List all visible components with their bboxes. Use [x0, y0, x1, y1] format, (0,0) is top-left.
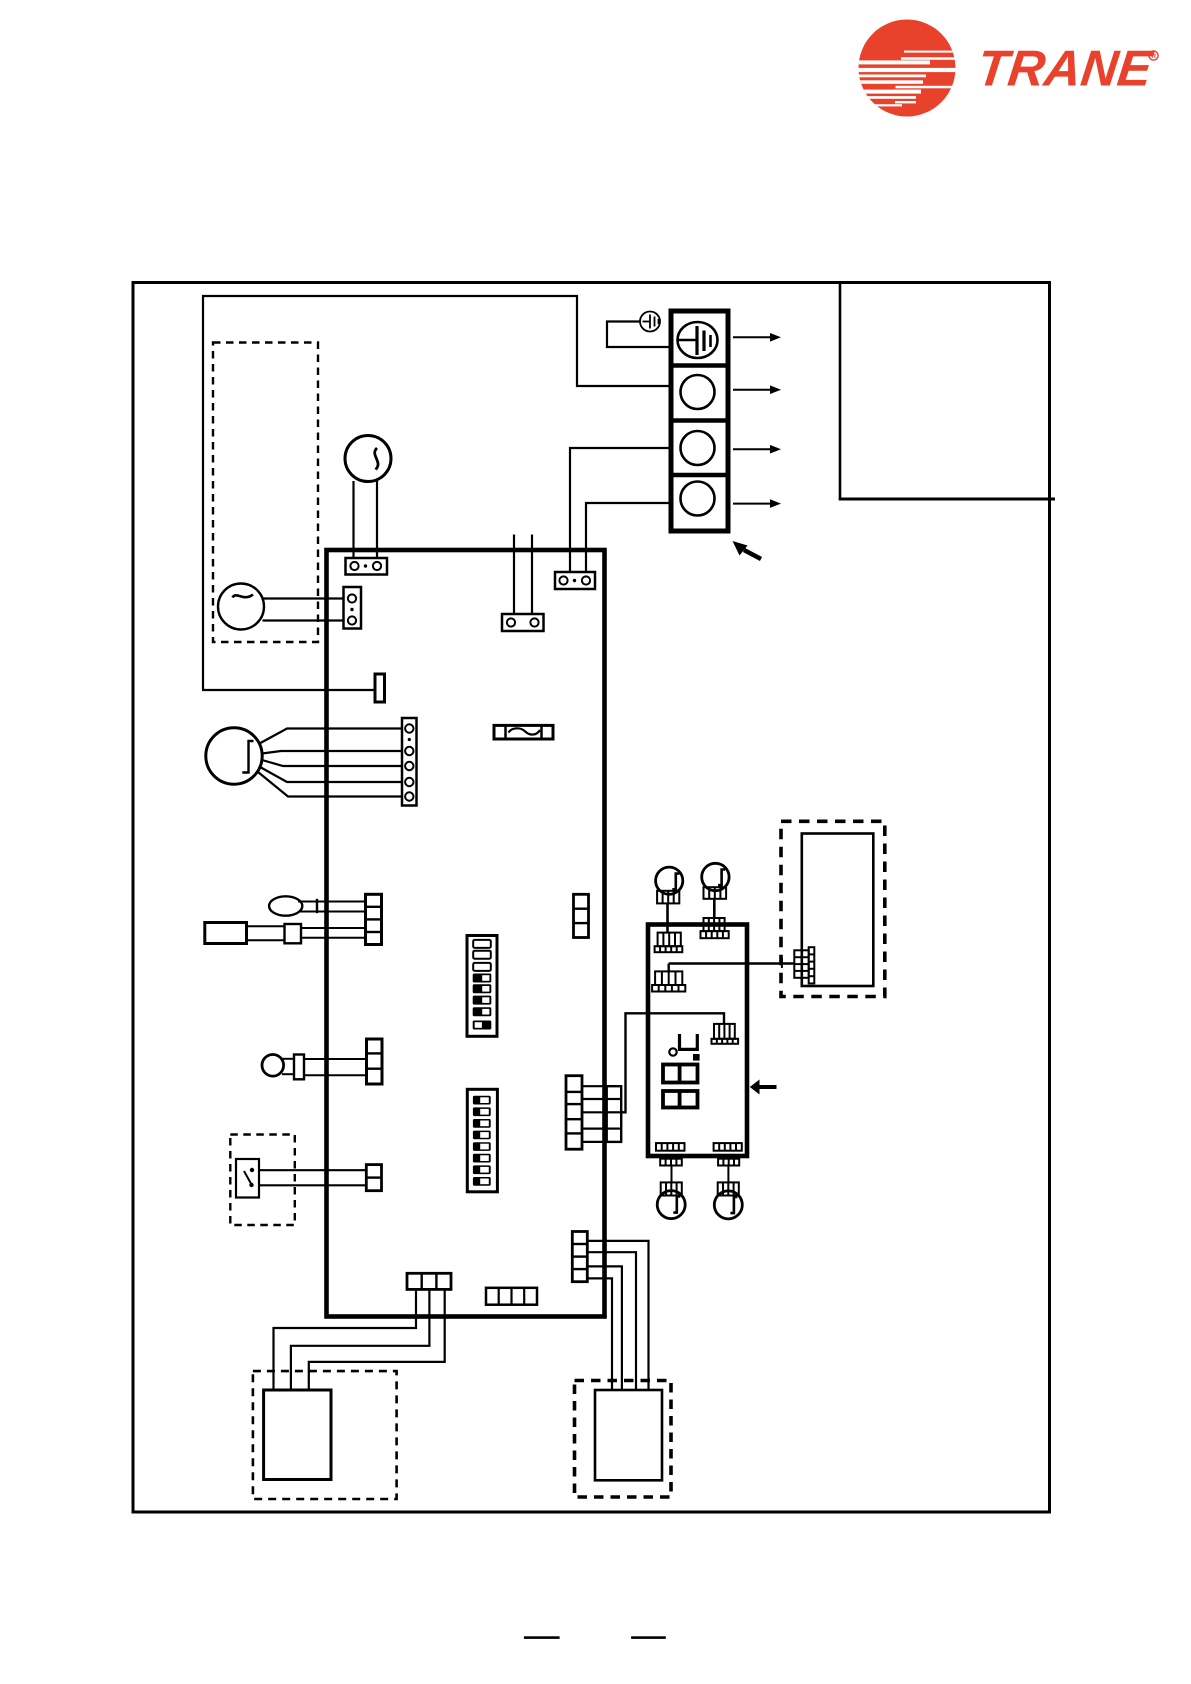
wire display to M3	[671, 1166, 673, 1183]
page footer dash 1	[524, 1636, 560, 1639]
temp sensor TH3 probe	[262, 1055, 367, 1080]
arrow pointing to terminal strip	[733, 541, 762, 559]
wire CN12 pin3 to compressor box	[587, 1266, 622, 1390]
connector CN5	[402, 718, 417, 806]
display comb B	[701, 918, 729, 938]
wire CN10 pin 2	[582, 1098, 607, 1100]
M1 comb connector	[657, 891, 679, 904]
connector CN8	[366, 1165, 381, 1191]
compressor body	[595, 1390, 662, 1480]
wire CN12 pin2 to compressor box	[587, 1252, 636, 1390]
wire switch line 1	[259, 1169, 366, 1171]
wire CN10 pin 4	[582, 1127, 607, 1129]
display comb A	[655, 933, 683, 953]
compressor dashed enclosure	[575, 1381, 672, 1498]
temp sensor TH1 bulb	[269, 896, 365, 915]
display digit 8 (tens)	[663, 1065, 698, 1083]
field wiring box bottom edge	[839, 498, 1055, 501]
page border frame	[133, 283, 1050, 1513]
power supply dashed enclosure	[213, 343, 318, 643]
wire contactor pin 1	[260, 729, 403, 744]
wire CN10 pin 3	[582, 1111, 607, 1113]
wire CN10 pin 1	[582, 1085, 607, 1087]
wire CN11 to display comb	[621, 1013, 724, 1112]
arrow terminal 2	[733, 385, 781, 394]
wire CN12 pin1 to compressor box	[587, 1241, 648, 1390]
connector CN7	[367, 1039, 383, 1084]
contactor body	[264, 1390, 331, 1480]
terminal 2 contact	[681, 375, 715, 409]
wire contactor pin 3	[262, 760, 402, 766]
connector CN4	[344, 587, 362, 629]
terminal 3 contact	[681, 431, 715, 465]
main control board outline	[327, 550, 605, 1317]
fuse F1	[494, 725, 553, 739]
pressure switch S1	[236, 1159, 259, 1198]
wire heater to connector pin 1	[352, 481, 354, 558]
arrow terminal 4	[733, 499, 781, 508]
display decimal point	[693, 1054, 700, 1061]
Trane logo circle	[855, 20, 957, 117]
Trane logo wordmark	[974, 40, 1158, 97]
wire CN13 pin1 to contactor box	[274, 1289, 417, 1390]
DIP switch block SW1	[467, 936, 497, 1037]
arrow terminal 3	[733, 445, 781, 454]
terminal strip TB1	[671, 311, 728, 531]
heater element circle	[345, 436, 391, 482]
DIP switch block SW2	[467, 1089, 497, 1192]
wire CN13 pin2 to contactor box	[291, 1289, 430, 1390]
M3 comb connector	[661, 1182, 682, 1195]
arrow terminal 1	[733, 333, 781, 342]
svg-text:TRANE: TRANE	[974, 40, 1157, 97]
display degree symbol	[669, 1048, 676, 1055]
contactor dashed enclosure	[253, 1371, 397, 1499]
remote controller dashed enclosure	[781, 821, 885, 996]
temp sensor TH2 probe	[205, 923, 366, 944]
connector CN11	[607, 1086, 622, 1142]
remote connector column B	[809, 947, 815, 983]
fan motor M3	[657, 1191, 685, 1219]
connector CN14	[486, 1288, 537, 1305]
wire tick at remote enclosure	[781, 958, 783, 968]
display comb E	[656, 1143, 685, 1165]
terminal 4 contact	[681, 482, 715, 516]
wire contactor pin 4	[260, 767, 402, 782]
M2 comb connector	[704, 887, 727, 899]
wire strip terminal 4 to board connector	[586, 503, 671, 572]
earth symbol (small)	[640, 312, 660, 332]
display comb D	[712, 1024, 739, 1044]
wire CN13 pin3 to contactor box	[309, 1289, 445, 1390]
wire contactor pin 2	[262, 751, 402, 754]
wire display to M4	[727, 1166, 729, 1183]
switch dashed enclosure	[230, 1135, 294, 1226]
wire AC source line 1	[263, 597, 344, 599]
fan motor M2	[702, 863, 729, 890]
wire switch line 2	[259, 1184, 366, 1186]
wire contactor pin 5	[258, 772, 402, 797]
fan motor M1	[656, 867, 683, 894]
connector CN12	[572, 1232, 587, 1282]
display unit outline	[648, 925, 747, 1157]
wire heater to connector pin 2	[376, 481, 378, 558]
display comb C	[652, 971, 685, 991]
wire from fuse to terminal strip L	[203, 296, 671, 690]
wire AC source line 2	[263, 619, 344, 621]
connector CN6	[366, 894, 382, 944]
display wire to remote connector	[669, 962, 795, 964]
connector CN3	[555, 572, 595, 589]
wire strip terminal 3 to board connector	[570, 448, 671, 572]
svg-text:R: R	[1151, 53, 1156, 60]
page footer dash 2	[631, 1636, 666, 1639]
display digit 8 (units)	[663, 1091, 698, 1108]
connector CN10	[566, 1076, 582, 1150]
earth wire to terminal strip	[607, 322, 671, 348]
display comb F	[714, 1143, 742, 1165]
wire M1 to display	[666, 903, 669, 932]
fan motor M4	[714, 1191, 742, 1219]
jumper plug J1	[375, 674, 385, 702]
wire M2 to display	[713, 899, 716, 918]
compressor contactor coil	[206, 728, 262, 784]
connector CN13	[407, 1273, 451, 1289]
connector CN2	[502, 614, 544, 631]
stub wire CN2 pin1	[513, 535, 515, 615]
arrow pointing to display	[750, 1080, 777, 1095]
wire CN12 pin4 to compressor box	[587, 1278, 612, 1390]
field wiring box left edge	[839, 282, 842, 499]
wire CN10 pin 5	[582, 1141, 607, 1143]
connector CN1	[346, 558, 388, 575]
M4 comb connector	[718, 1182, 739, 1195]
remote connector column A	[794, 950, 808, 978]
display C glyph	[680, 1034, 698, 1049]
remote controller body	[802, 834, 874, 987]
AC power source	[218, 584, 264, 630]
connector CN9	[574, 894, 589, 937]
stub wire CN2 pin2	[531, 535, 533, 615]
terminal 1 earth contact	[678, 322, 718, 358]
wire comb C drop	[668, 964, 670, 972]
